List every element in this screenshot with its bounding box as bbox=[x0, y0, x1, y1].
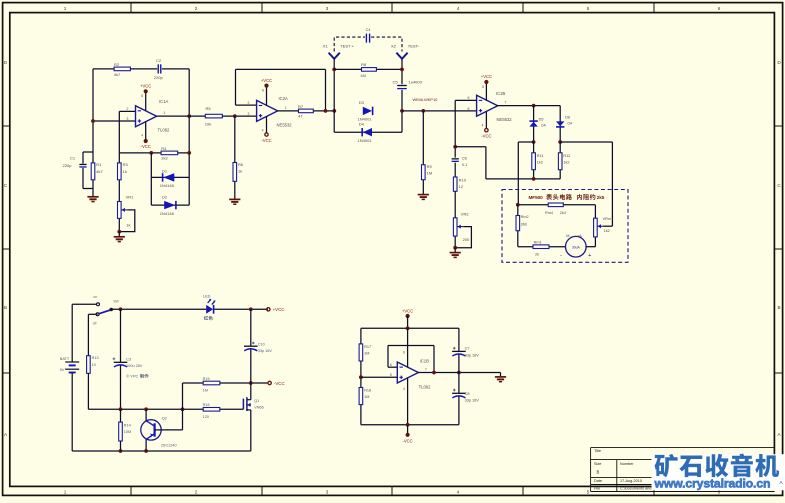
resistor R18 bbox=[359, 388, 363, 405]
title block frame bbox=[591, 447, 775, 449]
node VR1 bottom junction bbox=[117, 230, 121, 234]
wire R5 to IC2A noninverting bbox=[222, 115, 256, 117]
potentiometer VR2 bbox=[453, 218, 457, 236]
svg-text:4: 4 bbox=[403, 387, 405, 391]
op-amp IC1B bbox=[397, 362, 418, 383]
power terminal -VCC bbox=[268, 381, 271, 384]
svg-text:X1: X1 bbox=[323, 44, 329, 49]
plus mark (C3) bbox=[113, 358, 116, 361]
resistor R15 bbox=[203, 381, 220, 385]
svg-text:4: 4 bbox=[457, 490, 460, 495]
svg-text:6: 6 bbox=[468, 96, 470, 100]
potentiometer VRm bbox=[594, 218, 598, 237]
svg-text:Number: Number bbox=[620, 462, 634, 466]
svg-text:10M: 10M bbox=[124, 430, 131, 434]
wire -VCC stub (IC1B) bbox=[407, 425, 409, 433]
svg-text:MF500: MF500 bbox=[529, 195, 544, 200]
svg-text:D2: D2 bbox=[162, 195, 168, 200]
svg-text:D1: D1 bbox=[162, 168, 168, 173]
svg-text:R3: R3 bbox=[123, 162, 129, 167]
svg-text:on: on bbox=[93, 295, 97, 299]
svg-text:R9: R9 bbox=[427, 164, 433, 169]
ground (R9) bbox=[418, 194, 429, 196]
wire R6 branch bbox=[234, 116, 236, 162]
svg-text:B: B bbox=[777, 305, 780, 310]
svg-text:8: 8 bbox=[262, 89, 264, 93]
meter M (MF500 movement) bbox=[566, 236, 587, 257]
svg-text:-VCC: -VCC bbox=[274, 381, 285, 386]
power +VCC (IC2A) bbox=[264, 84, 268, 88]
value red color (LED) bbox=[204, 316, 208, 320]
svg-text:R14: R14 bbox=[124, 423, 131, 427]
capacitor C5 bbox=[397, 85, 407, 87]
power +VCC (IC1B) bbox=[406, 314, 410, 318]
svg-text:1: 1 bbox=[64, 6, 67, 11]
svg-text:120: 120 bbox=[203, 415, 209, 419]
svg-text:C5: C5 bbox=[393, 79, 399, 84]
svg-text:1M: 1M bbox=[364, 395, 369, 399]
svg-text:C:\Documents and: C:\Documents and bbox=[620, 486, 651, 490]
watermark background patch bbox=[652, 454, 785, 490]
resistor R11 bbox=[532, 153, 536, 170]
svg-text:Date: Date bbox=[594, 479, 602, 483]
svg-text:5: 5 bbox=[587, 6, 590, 11]
svg-text:2k5: 2k5 bbox=[597, 195, 605, 200]
svg-text:C7: C7 bbox=[465, 347, 470, 351]
wire diode clamp D3 D4 bbox=[333, 111, 335, 132]
node X1 column junction bbox=[332, 109, 336, 113]
svg-text:R1: R1 bbox=[96, 162, 102, 167]
node D5 top junction bbox=[532, 104, 536, 108]
svg-text:220p: 220p bbox=[63, 163, 73, 168]
svg-text:2k4: 2k4 bbox=[560, 211, 566, 215]
ground (VR2) bbox=[450, 252, 461, 254]
svg-text:1k2: 1k2 bbox=[537, 161, 543, 165]
wire IC1B top rail bbox=[407, 316, 409, 328]
svg-text:17-Aug-2010: 17-Aug-2010 bbox=[620, 479, 642, 483]
svg-text:1k2: 1k2 bbox=[604, 229, 610, 233]
svg-text:R2: R2 bbox=[114, 62, 120, 67]
resistor R13 bbox=[87, 356, 91, 374]
resistor R2 bbox=[114, 67, 130, 71]
svg-text:VR1: VR1 bbox=[126, 194, 135, 199]
watermark crystalradio logo bbox=[654, 454, 677, 477]
svg-text:+VCC: +VCC bbox=[261, 78, 272, 83]
svg-text:© YPC: © YPC bbox=[126, 373, 138, 378]
node C6 feedback junction bbox=[453, 145, 457, 149]
wire pin3 input bbox=[93, 120, 136, 122]
node X1-R8 junction bbox=[332, 68, 336, 72]
wire IC2A -VCC stub bbox=[266, 116, 268, 133]
svg-text:off: off bbox=[93, 322, 97, 326]
power +VCC (IC1A) bbox=[144, 89, 148, 93]
wire IC2A +VCC stub bbox=[266, 88, 268, 106]
wire IC1A +VCC stub bbox=[145, 93, 147, 111]
svg-text:4: 4 bbox=[457, 6, 460, 11]
diode D2 bbox=[164, 201, 175, 209]
svg-text:30uA: 30uA bbox=[572, 245, 581, 249]
ground (C1/R1) bbox=[87, 196, 98, 198]
node R6 top junction bbox=[233, 114, 237, 118]
wire IC1B output row bbox=[418, 372, 501, 374]
svg-text:-: - bbox=[560, 253, 562, 259]
svg-text:BATT: BATT bbox=[60, 357, 70, 361]
svg-text:TL062: TL062 bbox=[419, 384, 432, 389]
svg-text:R12: R12 bbox=[563, 154, 570, 158]
svg-text:C4: C4 bbox=[366, 28, 371, 32]
capacitor C6 bbox=[452, 158, 459, 160]
resistor R6 bbox=[233, 163, 237, 182]
svg-text:Rm1: Rm1 bbox=[534, 241, 542, 245]
svg-text:6: 6 bbox=[718, 6, 721, 11]
wire X2 C5 branch bbox=[401, 59, 403, 84]
svg-text:9V: 9V bbox=[60, 368, 65, 372]
wire rectifier right rail bbox=[560, 141, 612, 143]
svg-text:VN66: VN66 bbox=[254, 406, 264, 410]
wire IC2A output row bbox=[277, 110, 298, 112]
svg-text:R11: R11 bbox=[537, 154, 544, 158]
svg-text:M: M bbox=[566, 234, 569, 238]
resistor R17 bbox=[359, 344, 363, 361]
svg-text:4k7: 4k7 bbox=[96, 169, 103, 174]
wire R12 branch bbox=[559, 142, 561, 153]
svg-text:7: 7 bbox=[505, 101, 507, 105]
svg-text:-VCC: -VCC bbox=[141, 144, 151, 149]
svg-text:1k: 1k bbox=[238, 168, 242, 173]
capacitor C3 bbox=[114, 361, 128, 363]
wire IC1B pin8 stub bbox=[407, 328, 409, 367]
wire R13 to mid rail bbox=[87, 373, 89, 409]
svg-text:R17: R17 bbox=[364, 345, 371, 349]
resistor Rm4 bbox=[548, 203, 563, 207]
ground (IC1B output / signal ground) bbox=[500, 373, 502, 377]
capacitor C4 bbox=[365, 34, 367, 43]
svg-text:R5: R5 bbox=[206, 106, 212, 111]
svg-text:Rm4: Rm4 bbox=[545, 211, 553, 215]
svg-text:2SC1240: 2SC1240 bbox=[161, 444, 177, 448]
resistor R1 bbox=[91, 163, 95, 180]
node LED-C10 junction bbox=[249, 307, 253, 311]
wire +VCC top rail bbox=[111, 308, 206, 310]
svg-text:+VCC: +VCC bbox=[140, 83, 151, 88]
node C5 bottom junction bbox=[400, 109, 404, 113]
wire IC2B +VCC stub bbox=[485, 84, 487, 101]
svg-text:R8: R8 bbox=[361, 62, 367, 67]
wire Q1 source bbox=[250, 410, 252, 451]
resistor R3 bbox=[118, 163, 122, 180]
capacitor C7 bbox=[452, 350, 466, 352]
diode D1 bbox=[163, 173, 174, 181]
plus mark (C8) bbox=[453, 389, 456, 392]
svg-text:TL062: TL062 bbox=[158, 128, 171, 133]
svg-text:4: 4 bbox=[262, 128, 264, 132]
svg-text:R15: R15 bbox=[203, 377, 210, 381]
wire IC1A -VCC stub bbox=[145, 122, 147, 140]
svg-text:WIMA MKP10: WIMA MKP10 bbox=[413, 97, 439, 102]
wire diode network D1 D2 bbox=[150, 153, 152, 205]
wire R9 branch bbox=[422, 111, 424, 165]
svg-text:C2: C2 bbox=[156, 58, 162, 63]
wire feedback loop IC1A (left vertical / top / right vertical) bbox=[92, 69, 94, 152]
svg-text:1k: 1k bbox=[126, 223, 130, 228]
diode D6 bbox=[556, 121, 564, 126]
node C7 C8 mid junction bbox=[457, 371, 461, 375]
resistor R8 bbox=[362, 68, 377, 72]
svg-text:1M: 1M bbox=[364, 352, 369, 356]
wire D5 branch bbox=[533, 106, 535, 142]
svg-text:0.1: 0.1 bbox=[462, 162, 468, 167]
resistor R7 bbox=[299, 109, 314, 113]
svg-text:B: B bbox=[4, 305, 7, 310]
svg-text:1k: 1k bbox=[123, 169, 127, 174]
svg-text:LED: LED bbox=[203, 294, 211, 298]
svg-text:1: 1 bbox=[64, 490, 67, 495]
svg-text:47: 47 bbox=[298, 113, 303, 118]
svg-text:1M: 1M bbox=[427, 171, 433, 176]
power -VCC (IC2B) bbox=[485, 129, 488, 132]
wire IC1A output to R5 bbox=[157, 115, 206, 117]
svg-text:2k2: 2k2 bbox=[161, 156, 168, 161]
node R17 R18 mid junction bbox=[359, 375, 363, 379]
svg-text:2: 2 bbox=[127, 107, 129, 111]
wire C3 branch bbox=[120, 309, 122, 362]
svg-text:www.crystalradio.cn: www.crystalradio.cn bbox=[654, 477, 771, 491]
svg-text:R16: R16 bbox=[203, 403, 210, 407]
svg-text:Q2: Q2 bbox=[162, 417, 167, 421]
wire meter right side bbox=[586, 246, 595, 248]
svg-text:-VCC: -VCC bbox=[402, 439, 412, 444]
wire R17 R18 branch bbox=[360, 328, 362, 344]
wire base riser bbox=[182, 383, 184, 430]
svg-text:+VCC: +VCC bbox=[402, 308, 413, 313]
svg-text:1u400V: 1u400V bbox=[409, 79, 423, 84]
transistor Q1 (MOSFET) bbox=[242, 399, 244, 410]
wire signal row to IC2B bbox=[402, 110, 477, 112]
terminal X2 arrow bbox=[396, 53, 407, 59]
node D6 bottom junction bbox=[558, 140, 562, 144]
svg-text:+VCC: +VCC bbox=[481, 74, 492, 79]
svg-text:B: B bbox=[597, 470, 600, 475]
svg-text:4: 4 bbox=[141, 134, 143, 138]
svg-text:5: 5 bbox=[390, 373, 392, 377]
wire IC2B inverting branch bbox=[455, 99, 476, 101]
svg-text:1M: 1M bbox=[360, 73, 366, 78]
svg-text:2: 2 bbox=[248, 101, 250, 105]
potentiometer VR1 bbox=[118, 202, 122, 219]
resistor Rm2 bbox=[516, 216, 520, 231]
wire bottom rail bbox=[72, 450, 251, 452]
wire C1 R1 branch bbox=[83, 151, 93, 153]
node R14 bottom junction bbox=[119, 449, 123, 453]
node meter box entry junction bbox=[516, 203, 520, 207]
wire R4 feedback row bbox=[119, 152, 189, 154]
svg-text:5: 5 bbox=[587, 490, 590, 495]
svg-text:C6: C6 bbox=[462, 155, 468, 160]
node D5 bottom junction bbox=[532, 140, 536, 144]
capacitor C10 bbox=[244, 345, 258, 347]
node R9 top junction bbox=[421, 109, 425, 113]
resistor R10 bbox=[453, 177, 457, 191]
wire pin2 input bbox=[119, 110, 135, 112]
resistor R12 bbox=[558, 153, 562, 170]
diode D3 bbox=[363, 107, 372, 115]
svg-text:File: File bbox=[594, 486, 600, 490]
node base riser junction bbox=[181, 407, 185, 411]
svg-text:33p 16V: 33p 16V bbox=[465, 399, 480, 403]
svg-text:Size: Size bbox=[594, 462, 601, 466]
resistor R14 bbox=[119, 422, 123, 441]
meter network dashed box bbox=[502, 190, 628, 263]
wire meter bottom row bbox=[518, 246, 566, 248]
svg-text:4: 4 bbox=[482, 124, 484, 128]
plus mark (C7) bbox=[453, 347, 456, 350]
wire noninverting input (IC1B) bbox=[361, 376, 397, 378]
svg-text:-VCC: -VCC bbox=[261, 138, 271, 143]
svg-text:uA: uA bbox=[577, 234, 582, 238]
node pin3 junction bbox=[91, 119, 95, 123]
svg-text:NE5532: NE5532 bbox=[277, 122, 293, 127]
op-amp IC1A bbox=[136, 106, 157, 127]
wire IC2B output row bbox=[497, 105, 561, 107]
node output-R7 junction bbox=[324, 109, 328, 113]
svg-text:NE5532: NE5532 bbox=[497, 117, 513, 122]
svg-text:5: 5 bbox=[468, 107, 470, 111]
svg-text:OA: OA bbox=[567, 121, 573, 125]
svg-text:SW: SW bbox=[113, 299, 119, 303]
node Q2 emitter junction bbox=[144, 449, 148, 453]
svg-text:X2: X2 bbox=[391, 44, 397, 49]
svg-text:VR2: VR2 bbox=[461, 212, 470, 217]
wire R15 row bbox=[183, 382, 269, 384]
svg-text:TEST +: TEST + bbox=[340, 44, 354, 49]
wire switch off branch bbox=[88, 313, 97, 315]
svg-text:D3: D3 bbox=[359, 100, 365, 105]
node -VCC junction bbox=[249, 381, 253, 385]
node Q2 collector junction bbox=[144, 407, 148, 411]
switch SW bbox=[97, 303, 100, 306]
svg-text:8: 8 bbox=[482, 85, 484, 89]
node C3 bottom junction bbox=[119, 407, 123, 411]
ground (R6) bbox=[229, 198, 240, 200]
svg-text:Title: Title bbox=[594, 449, 601, 453]
LED indicator bbox=[206, 305, 213, 314]
svg-text:+: + bbox=[588, 253, 591, 259]
wire IC1B feedback loop bbox=[388, 366, 397, 368]
wire R3 VR1 branch bbox=[118, 153, 120, 163]
power -VCC (IC1A) bbox=[144, 139, 148, 143]
wire dashed probe link with C4 bbox=[334, 37, 402, 51]
svg-text:100u 25V: 100u 25V bbox=[126, 364, 143, 368]
resistor R9 bbox=[422, 165, 426, 180]
svg-text:C1: C1 bbox=[70, 156, 76, 161]
svg-text:2: 2 bbox=[195, 490, 198, 495]
svg-text:C3: C3 bbox=[126, 358, 131, 362]
svg-text:-VCC: -VCC bbox=[481, 133, 491, 138]
svg-text:3: 3 bbox=[326, 490, 329, 495]
svg-text:1N4148: 1N4148 bbox=[160, 183, 175, 188]
svg-text:D6: D6 bbox=[565, 116, 570, 120]
wire IC2B -VCC stub bbox=[485, 111, 487, 129]
svg-text:8: 8 bbox=[141, 94, 143, 98]
wire C7 C8 branch bbox=[458, 328, 460, 351]
node VR2 bottom junction bbox=[453, 246, 457, 250]
svg-text:33p 16V: 33p 16V bbox=[258, 349, 273, 353]
svg-text:R6: R6 bbox=[238, 162, 244, 167]
wire R10 to VR2 bbox=[454, 191, 456, 218]
ground (VR1) bbox=[114, 236, 125, 238]
svg-text:360: 360 bbox=[521, 222, 527, 226]
wire rectifier left rail bbox=[518, 141, 533, 143]
svg-text:1: 1 bbox=[285, 106, 287, 110]
svg-text:3: 3 bbox=[127, 117, 129, 121]
op-amp IC2A bbox=[257, 100, 278, 121]
resistor R5 bbox=[205, 114, 222, 118]
node IC1B feedback junction bbox=[432, 371, 436, 375]
svg-text:D4: D4 bbox=[359, 121, 365, 126]
wire Q1 drain bbox=[250, 383, 252, 400]
svg-text:7: 7 bbox=[425, 367, 427, 371]
svg-text:R13: R13 bbox=[92, 356, 99, 360]
wire C10 branch bbox=[250, 309, 252, 346]
svg-text:VRm: VRm bbox=[603, 217, 611, 221]
resistor Rm1 bbox=[533, 245, 549, 249]
svg-text:OA: OA bbox=[541, 123, 547, 127]
svg-text:3: 3 bbox=[326, 6, 329, 11]
wire feedback return bbox=[455, 146, 486, 148]
svg-text:Rm2: Rm2 bbox=[521, 215, 529, 219]
node IC1A output junction bbox=[187, 114, 191, 118]
diode D4 bbox=[363, 128, 372, 136]
svg-text:R4: R4 bbox=[161, 146, 167, 151]
op-amp IC2B bbox=[477, 95, 498, 116]
resistor R4 bbox=[161, 151, 178, 155]
svg-text:IC1B: IC1B bbox=[420, 358, 430, 363]
svg-text:10: 10 bbox=[92, 363, 96, 367]
svg-text:6: 6 bbox=[390, 363, 392, 367]
node R4 left junction bbox=[149, 151, 153, 155]
svg-text:+VCC: +VCC bbox=[273, 307, 285, 312]
wire IC1B pin4 stub bbox=[407, 378, 409, 425]
svg-text:3: 3 bbox=[248, 112, 250, 116]
svg-text:D5: D5 bbox=[539, 118, 544, 122]
svg-text:R7: R7 bbox=[298, 104, 304, 109]
plus mark (C10) bbox=[252, 342, 255, 345]
wire R11 branch bbox=[533, 142, 535, 153]
svg-text:8: 8 bbox=[403, 350, 405, 354]
svg-text:220p: 220p bbox=[154, 75, 164, 80]
svg-text:1N4148: 1N4148 bbox=[160, 211, 175, 216]
node IC1B bottom rail junction bbox=[406, 423, 410, 427]
svg-text:IC2A: IC2A bbox=[279, 96, 289, 101]
node IC1B top rail junction bbox=[406, 326, 410, 330]
wire IC2A feedback loop bbox=[236, 104, 257, 106]
svg-text:200: 200 bbox=[463, 237, 470, 242]
wire Rm2 branch bbox=[517, 205, 519, 216]
svg-text:IC2B: IC2B bbox=[496, 91, 506, 96]
svg-text:1N4001: 1N4001 bbox=[358, 138, 373, 143]
svg-text:R18: R18 bbox=[364, 389, 371, 393]
svg-text:C8: C8 bbox=[465, 392, 470, 396]
svg-text:33p 16V: 33p 16V bbox=[465, 353, 480, 357]
wire IC1B bottom rail bbox=[361, 424, 459, 426]
resistor R16 bbox=[203, 408, 220, 412]
svg-text:1: 1 bbox=[164, 111, 166, 115]
svg-text:2k: 2k bbox=[535, 252, 539, 256]
capacitor C2 bbox=[157, 64, 159, 73]
svg-text:4k7: 4k7 bbox=[114, 72, 121, 77]
svg-text:TEST-: TEST- bbox=[408, 44, 420, 49]
svg-text:2: 2 bbox=[195, 6, 198, 11]
